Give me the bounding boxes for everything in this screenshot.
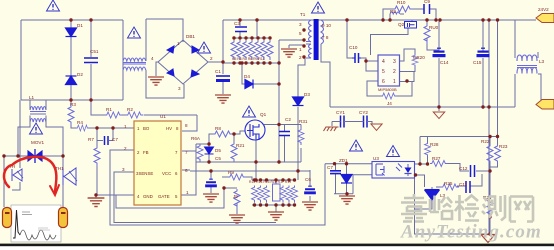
svg-text:U3: U3 bbox=[373, 156, 379, 161]
svg-text:DB1: DB1 bbox=[186, 34, 195, 39]
svg-text:1: 1 bbox=[177, 41, 180, 46]
svg-text:R13 R16 R15 R18 R17 R19: R13 R16 R15 R18 R17 R19 bbox=[249, 180, 291, 184]
svg-text:1: 1 bbox=[299, 47, 302, 52]
svg-text:1: 1 bbox=[186, 190, 189, 195]
svg-text:5: 5 bbox=[382, 69, 385, 75]
svg-text:R9: R9 bbox=[228, 170, 234, 175]
svg-text:J4: J4 bbox=[387, 101, 392, 106]
svg-text:Q2: Q2 bbox=[398, 22, 405, 27]
svg-text:R4: R4 bbox=[77, 120, 83, 125]
svg-text:2: 2 bbox=[124, 146, 127, 151]
svg-text:R7: R7 bbox=[88, 137, 94, 142]
svg-text:R8: R8 bbox=[215, 126, 221, 131]
svg-text:R6A: R6A bbox=[191, 136, 201, 141]
svg-text:4: 4 bbox=[382, 59, 385, 65]
svg-text:ZD1: ZD1 bbox=[339, 158, 348, 163]
svg-text:D3: D3 bbox=[304, 92, 310, 97]
svg-text:R31: R31 bbox=[299, 119, 308, 124]
svg-text:R23: R23 bbox=[499, 144, 508, 149]
svg-text:CY1: CY1 bbox=[336, 110, 345, 115]
svg-text:C12: C12 bbox=[459, 166, 468, 171]
svg-text:C6: C6 bbox=[305, 177, 311, 182]
svg-text:R21: R21 bbox=[236, 143, 245, 148]
svg-text:C15: C15 bbox=[473, 60, 482, 65]
svg-text:7 8: 7 8 bbox=[322, 35, 329, 40]
svg-text:3SENSE: 3SENSE bbox=[136, 171, 153, 176]
svg-text:C7: C7 bbox=[327, 165, 333, 170]
svg-text:3: 3 bbox=[122, 167, 125, 172]
svg-text:6: 6 bbox=[185, 168, 188, 173]
svg-text:D2: D2 bbox=[77, 72, 83, 77]
svg-text:D4: D4 bbox=[244, 74, 250, 79]
svg-text:2: 2 bbox=[299, 55, 302, 60]
svg-text:2: 2 bbox=[393, 69, 396, 75]
svg-text:R25: R25 bbox=[444, 181, 453, 186]
svg-text:4: 4 bbox=[151, 56, 154, 61]
svg-text:C2: C2 bbox=[285, 117, 291, 122]
svg-text:AnyTesting.com: AnyTesting.com bbox=[400, 222, 542, 243]
svg-text:3: 3 bbox=[299, 22, 302, 27]
svg-text:C1: C1 bbox=[215, 69, 221, 74]
svg-text:1: 1 bbox=[124, 124, 127, 129]
svg-text:MOV1: MOV1 bbox=[31, 140, 44, 145]
svg-text:C51: C51 bbox=[90, 49, 99, 54]
svg-text:R1: R1 bbox=[106, 107, 112, 112]
svg-text:3: 3 bbox=[178, 86, 181, 91]
svg-text:3: 3 bbox=[393, 59, 396, 65]
svg-text:MIP5800B: MIP5800B bbox=[378, 87, 397, 92]
svg-text:2: 2 bbox=[210, 56, 213, 61]
svg-text:T1: T1 bbox=[300, 12, 306, 17]
svg-text:L1: L1 bbox=[29, 95, 35, 100]
svg-text:R9: R9 bbox=[390, 9, 396, 14]
svg-text:6: 6 bbox=[382, 79, 385, 85]
svg-text:5: 5 bbox=[299, 31, 302, 36]
svg-text:R27: R27 bbox=[432, 156, 441, 161]
svg-text:R3: R3 bbox=[70, 102, 76, 107]
svg-text:R5 R6 R7 R8 R9 R11: R5 R6 R7 R8 R9 R11 bbox=[232, 57, 264, 61]
svg-text:D5: D5 bbox=[215, 148, 221, 153]
svg-text:GATE: GATE bbox=[158, 194, 170, 199]
svg-text:L3: L3 bbox=[539, 59, 545, 64]
svg-text:9 10: 9 10 bbox=[322, 23, 331, 28]
svg-text:VCC: VCC bbox=[162, 171, 171, 176]
svg-text:BO: BO bbox=[143, 126, 150, 131]
svg-text:C3: C3 bbox=[234, 21, 240, 26]
svg-text:C5: C5 bbox=[215, 156, 221, 161]
svg-text:C14: C14 bbox=[440, 60, 449, 65]
svg-text:CR20: CR20 bbox=[413, 55, 425, 60]
svg-text:CY2: CY2 bbox=[359, 110, 368, 115]
svg-text:24V2: 24V2 bbox=[538, 7, 549, 12]
svg-text:C7: C7 bbox=[112, 137, 118, 142]
svg-text:C10: C10 bbox=[349, 45, 358, 50]
svg-text:GND: GND bbox=[143, 194, 153, 199]
svg-text:R10: R10 bbox=[397, 0, 406, 5]
svg-text:FB: FB bbox=[143, 150, 149, 155]
svg-text:RU0: RU0 bbox=[429, 25, 439, 30]
svg-text:C11: C11 bbox=[459, 182, 468, 187]
svg-text:C9: C9 bbox=[424, 0, 430, 4]
svg-text:Q1: Q1 bbox=[260, 112, 267, 117]
svg-text:U1: U1 bbox=[160, 114, 166, 119]
svg-text:7: 7 bbox=[185, 150, 188, 155]
svg-text:R22: R22 bbox=[481, 139, 490, 144]
svg-text:HV: HV bbox=[166, 126, 172, 131]
svg-text:8: 8 bbox=[185, 123, 188, 128]
svg-text:D1: D1 bbox=[77, 23, 83, 28]
svg-text:R2: R2 bbox=[127, 107, 133, 112]
svg-text:J9: J9 bbox=[233, 194, 238, 199]
svg-text:1: 1 bbox=[393, 79, 396, 85]
svg-text:R28: R28 bbox=[430, 142, 439, 147]
